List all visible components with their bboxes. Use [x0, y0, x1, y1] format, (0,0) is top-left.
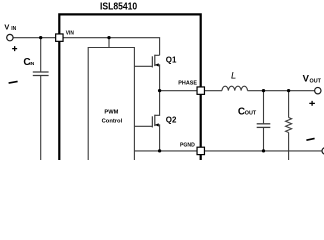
svg-text:Q1: Q1 [166, 55, 177, 65]
svg-text:VIN: VIN [66, 30, 74, 36]
svg-text:PWM: PWM [104, 109, 118, 115]
svg-text:Q2: Q2 [166, 115, 177, 125]
svg-text:PHASE: PHASE [178, 81, 197, 87]
svg-text:IN: IN [11, 26, 16, 32]
svg-text:ISL85410: ISL85410 [100, 2, 138, 13]
svg-text:L: L [231, 70, 236, 81]
svg-text:OUT: OUT [245, 111, 257, 117]
svg-text:IN: IN [29, 61, 34, 67]
svg-text:Control: Control [102, 119, 123, 125]
svg-text:OUT: OUT [310, 78, 322, 84]
svg-text:PGND: PGND [180, 143, 195, 149]
svg-text:V: V [4, 22, 9, 31]
